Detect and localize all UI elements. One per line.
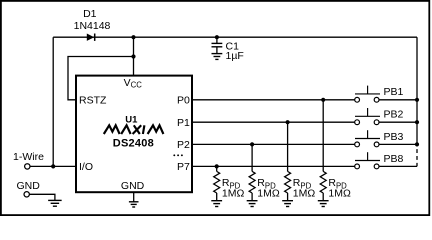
svg-text:DS2408: DS2408 [113, 137, 154, 149]
svg-text:GND: GND [121, 180, 145, 192]
MAXIM logo [104, 125, 164, 134]
ground below C1 [212, 54, 223, 60]
resistor R2 RPD 1Mohm [249, 171, 280, 199]
wire P2 net [192, 143, 355, 145]
ground below R3 [282, 201, 293, 207]
node C1 tap [215, 35, 219, 39]
svg-text:1MΩ: 1MΩ [222, 187, 245, 199]
pushbutton PB2 [355, 108, 404, 125]
terminal 1-Wire [13, 151, 44, 169]
wire R4 to ground [322, 193, 324, 201]
wire PB8 to bus [379, 165, 417, 167]
wire R2 to ground [251, 193, 253, 201]
wire PB2 to bus [379, 121, 417, 123]
svg-text:1MΩ: 1MΩ [328, 187, 351, 199]
wire GND terminal lead [29, 194, 55, 200]
wire R2 stem from P-tap [251, 144, 253, 171]
svg-text:1µF: 1µF [226, 50, 244, 62]
wire left 1-Wire bus vertical [52, 37, 54, 166]
svg-text:PB2: PB2 [384, 109, 404, 121]
wire IC GND pin [133, 192, 135, 202]
svg-text:PB8: PB8 [384, 153, 404, 165]
wire R4 stem from P-tap [322, 100, 324, 172]
ground below R2 [247, 201, 258, 207]
svg-text:1MΩ: 1MΩ [293, 187, 316, 199]
resistor R1 RPD 1Mohm [214, 171, 245, 199]
wire R3 stem from P-tap [287, 122, 289, 171]
pushbutton PB1 [355, 86, 404, 103]
node PB3 bus junction [415, 142, 419, 146]
svg-text:D1: D1 [83, 8, 97, 20]
wire R3 to ground [287, 193, 289, 201]
resistor R3 RPD 1Mohm [285, 171, 316, 199]
ground below IC [129, 202, 139, 207]
svg-text:P1: P1 [177, 117, 190, 129]
svg-text:RSTZ: RSTZ [79, 95, 107, 107]
node PB2 bus junction [415, 120, 419, 124]
svg-text:GND: GND [17, 180, 41, 192]
wire R1 stem from P-tap [216, 166, 218, 171]
node I/O junction [51, 164, 55, 168]
svg-text:I/O: I/O [79, 161, 93, 173]
terminal GND [17, 180, 41, 197]
wire right pushbutton bus [416, 37, 418, 144]
capacitor C1 1uF [212, 37, 244, 62]
node RSTZ branch junction [131, 54, 135, 58]
op-amp U1 DS2408 IC body [76, 76, 192, 193]
wire RSTZ branch [68, 57, 134, 100]
wire P7 net [192, 165, 355, 167]
wire R1 to ground [216, 193, 218, 201]
wire P1 net [192, 121, 355, 123]
svg-text:PB3: PB3 [384, 131, 404, 143]
ground below R4 [318, 201, 329, 207]
node P2 resistor tap [250, 142, 254, 146]
pushbutton PB8 [355, 152, 404, 169]
node PB1 bus junction [415, 98, 419, 102]
wire PB1 to bus [379, 99, 417, 101]
svg-text:P0: P0 [177, 95, 190, 107]
ground below R1 [211, 201, 222, 207]
svg-text:1N4148: 1N4148 [74, 20, 111, 32]
wire PB3 to bus [379, 143, 417, 145]
diode D1 1N4148 [74, 8, 111, 41]
resistor R4 RPD 1Mohm [320, 171, 351, 199]
svg-text:1-Wire: 1-Wire [13, 151, 44, 163]
wire P0 net [192, 99, 355, 101]
wire VCC pin drop [133, 37, 135, 75]
node P1 resistor tap [286, 120, 290, 124]
wire dashed bus continuation [416, 147, 418, 167]
wire I/O line [30, 165, 76, 167]
svg-text:P2: P2 [177, 139, 190, 151]
node VCC junction [131, 35, 135, 39]
pushbutton PB3 [355, 130, 404, 147]
svg-text:1MΩ: 1MΩ [257, 187, 280, 199]
svg-text:PB1: PB1 [384, 86, 404, 98]
ground at GND terminal [48, 200, 62, 206]
node P0 resistor tap [321, 98, 325, 102]
wire top VCC rail [53, 36, 417, 38]
node P7 resistor tap [215, 164, 219, 168]
svg-text:U1: U1 [125, 114, 138, 125]
svg-text:P7: P7 [177, 161, 190, 173]
